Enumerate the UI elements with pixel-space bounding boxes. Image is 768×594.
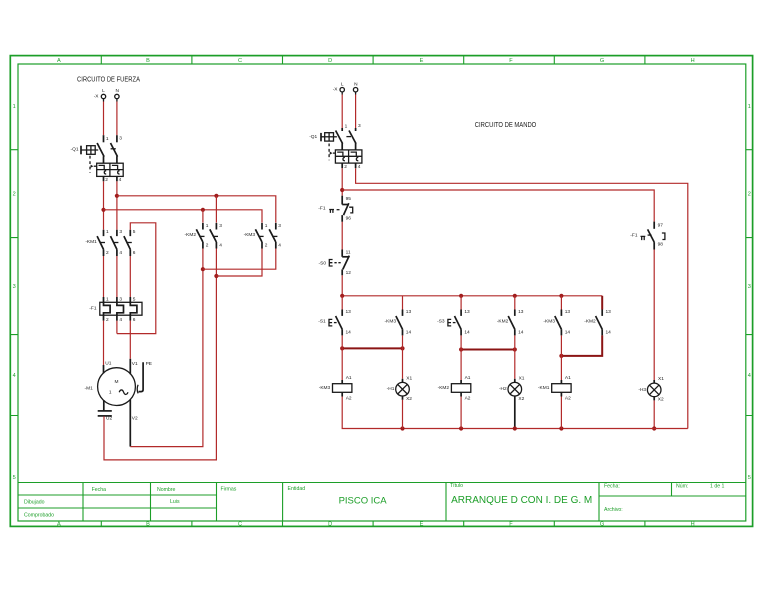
node dot L branch — [340, 188, 344, 192]
motor V2 lead — [129, 400, 131, 447]
svg-text:PISCO ICA: PISCO ICA — [339, 496, 388, 507]
svg-text:-KM3: -KM3 — [319, 385, 331, 391]
frame column ticks bottom — [101, 521, 645, 526]
svg-text:-KM2: -KM2 — [185, 232, 197, 238]
wire F1 pole2 to motor U1 — [103, 321, 105, 365]
svg-text:N: N — [354, 81, 358, 87]
frame column ticks top — [101, 56, 645, 64]
svg-text:X2: X2 — [518, 396, 524, 402]
svg-text:14: 14 — [606, 329, 612, 335]
svg-text:3: 3 — [119, 136, 122, 142]
thermal overload F1 (power) — [89, 296, 142, 322]
svg-text:13: 13 — [346, 309, 352, 315]
svg-text:2: 2 — [344, 164, 347, 170]
svg-text:-KM1: -KM1 — [538, 385, 550, 391]
svg-text:-KM3: -KM3 — [385, 318, 397, 324]
svg-text:Núm:: Núm: — [676, 484, 688, 490]
svg-text:CIRCUITO DE FUERZA: CIRCUITO DE FUERZA — [77, 76, 140, 83]
svg-text:3: 3 — [748, 284, 751, 290]
svg-text:M: M — [115, 379, 119, 385]
svg-text:D: D — [328, 58, 332, 64]
svg-text:14: 14 — [565, 329, 571, 335]
frame row numbers left and right — [13, 104, 751, 481]
svg-text:4: 4 — [219, 242, 222, 248]
wire L down to Q1 (control) — [341, 95, 343, 129]
svg-text:Nombre: Nombre — [157, 487, 176, 493]
svg-text:13: 13 — [565, 309, 571, 315]
svg-text:-KM2: -KM2 — [438, 385, 450, 391]
svg-text:5: 5 — [748, 475, 751, 481]
svg-text:1: 1 — [748, 104, 751, 110]
control bus lower — [342, 397, 688, 429]
svg-text:-KM2: -KM2 — [497, 318, 509, 324]
svg-text:Fecha: Fecha — [92, 487, 107, 493]
svg-text:X2: X2 — [406, 396, 412, 402]
svg-text:6: 6 — [133, 250, 136, 256]
wire S1 node down to coil KM3 — [341, 348, 343, 380]
svg-text:PE: PE — [146, 361, 152, 367]
svg-text:N: N — [115, 88, 119, 94]
svg-text:A: A — [57, 522, 61, 528]
svg-text:4: 4 — [358, 164, 361, 170]
svg-text:1 de 1: 1 de 1 — [710, 484, 725, 490]
svg-text:1: 1 — [106, 229, 109, 235]
svg-text:C: C — [238, 522, 242, 528]
wire F1 98 down to lamp H3 — [653, 250, 655, 383]
wire F1 pole4 lower stub — [116, 321, 118, 334]
svg-text:E: E — [420, 58, 424, 64]
wire L branch to KM2/KM3 pole 1 — [104, 210, 263, 223]
svg-text:13: 13 — [518, 309, 524, 315]
svg-text:C: C — [238, 58, 242, 64]
node dot H3 on lower bus — [652, 426, 656, 430]
thermal contact F1 97/98 — [630, 222, 665, 250]
svg-text:2: 2 — [206, 242, 209, 248]
svg-text:A1: A1 — [465, 375, 471, 381]
wire join KM3b/KM2b below (thick) — [561, 335, 602, 356]
svg-text:-X: -X — [333, 87, 339, 93]
lamp H2 — [499, 375, 525, 428]
svg-text:2: 2 — [265, 242, 268, 248]
wire join KM2/KM3 pole1 bottoms — [203, 249, 276, 270]
svg-text:-F1: -F1 — [630, 232, 638, 238]
thermal contact F1 95/96 — [318, 196, 352, 222]
contact KM2 aux b (NO) — [584, 309, 611, 335]
wire KM3b node down to coil KM1 — [560, 356, 562, 380]
svg-text:V1: V1 — [132, 361, 138, 367]
svg-text:G: G — [600, 522, 604, 528]
motor M1 — [85, 359, 152, 406]
pushbutton S3 (NO) — [437, 309, 470, 335]
svg-text:14: 14 — [346, 329, 352, 335]
svg-text:2: 2 — [105, 177, 108, 183]
svg-text:6: 6 — [133, 317, 136, 323]
svg-text:-M1: -M1 — [85, 385, 94, 391]
wire L branch to F1 97 column — [342, 190, 654, 222]
frame column letters bottom — [57, 522, 695, 528]
coil KM1 — [538, 375, 571, 401]
wire H1 down to lower bus — [402, 400, 404, 429]
node dot KM2 pole3 top — [214, 194, 218, 198]
title block labels — [24, 483, 725, 519]
svg-text:-KM2: -KM2 — [584, 318, 596, 324]
node dot KM2 pole3 bottom — [214, 274, 218, 278]
capacitor symbol at U2 — [98, 400, 113, 421]
svg-text:Comprobado: Comprobado — [24, 513, 54, 519]
wire F1 pole6 to motor V1 — [129, 321, 131, 359]
svg-text:F: F — [509, 58, 513, 64]
svg-text:ARRANQUE D CON I. DE G. M: ARRANQUE D CON I. DE G. M — [451, 495, 592, 506]
svg-text:95: 95 — [346, 196, 352, 202]
wire KM2 coil down to lower bus — [460, 397, 462, 429]
svg-text:-S3: -S3 — [437, 319, 445, 325]
svg-text:-S0: -S0 — [319, 260, 327, 266]
drawing frame inner border — [18, 64, 746, 521]
svg-text:5: 5 — [133, 229, 136, 235]
bus tap KM2b (thick) — [601, 296, 603, 310]
coil KM2 — [438, 375, 471, 401]
svg-text:A2: A2 — [565, 396, 571, 402]
svg-text:11: 11 — [346, 250, 351, 256]
svg-text:V2: V2 — [132, 416, 138, 422]
svg-text:X1: X1 — [406, 375, 412, 381]
svg-text:Luis: Luis — [170, 499, 180, 505]
PE pigtail — [139, 362, 144, 391]
svg-text:1: 1 — [265, 223, 268, 229]
svg-text:2: 2 — [748, 192, 751, 198]
wire S3 node down to coil KM2 — [460, 350, 462, 381]
svg-text:-H1: -H1 — [387, 386, 395, 392]
wire N across to right drop — [356, 168, 688, 428]
breaker Q1 (control) — [309, 123, 362, 170]
svg-text:A: A — [57, 58, 61, 64]
wire N down to Q1 (power) — [116, 102, 118, 136]
svg-text:Entidad: Entidad — [288, 486, 306, 492]
svg-text:B: B — [146, 522, 150, 528]
wire KM2 node down to lamp H2 — [514, 350, 516, 379]
svg-text:-Q1: -Q1 — [71, 146, 79, 152]
svg-text:5: 5 — [133, 296, 136, 302]
node dots on lower bus — [400, 426, 404, 430]
wire KM1 outputs to F1 — [104, 256, 131, 297]
svg-text:-KM3: -KM3 — [244, 232, 256, 238]
svg-text:3: 3 — [119, 229, 122, 235]
wire L below Q1 to F1 95 — [341, 168, 343, 196]
svg-text:13: 13 — [464, 309, 470, 315]
wire KM2 pole1 feed — [202, 210, 204, 223]
bus taps down to contacts — [342, 296, 561, 310]
wire L from Q1 to KM1 pole 1 — [103, 181, 105, 229]
wire L down to Q1 (power) — [103, 102, 105, 136]
wire N from Q1 to KM1 pole 3 — [116, 181, 118, 229]
svg-text:-H3: -H3 — [638, 387, 646, 393]
control bus upper — [342, 295, 602, 297]
svg-text:B: B — [146, 58, 150, 64]
svg-text:Fecha:: Fecha: — [604, 484, 620, 490]
contact KM3 aux (NO) — [385, 309, 412, 335]
terminal -X L (power) — [94, 88, 106, 102]
svg-text:2: 2 — [106, 317, 109, 323]
node dots on upper bus — [340, 294, 344, 298]
svg-text:1: 1 — [106, 296, 109, 302]
wire join S3/KM2 below — [461, 349, 515, 351]
node dot N feed — [115, 194, 119, 198]
terminal N (control) — [353, 81, 358, 94]
svg-text:A1: A1 — [346, 375, 352, 381]
node dot KM2 pole1 top — [201, 208, 205, 212]
svg-text:D: D — [328, 522, 332, 528]
svg-text:3: 3 — [119, 296, 122, 302]
svg-text:X1: X1 — [519, 375, 525, 381]
wire KM1 pole5 feed loop — [117, 223, 156, 334]
wire KM2 pole1 down and across to motor V2 — [130, 249, 203, 447]
svg-text:4: 4 — [13, 373, 16, 379]
svg-text:-Q1: -Q1 — [309, 134, 317, 140]
svg-text:96: 96 — [346, 216, 352, 222]
contact KM3 aux b (NO) — [543, 309, 570, 335]
svg-text:13: 13 — [406, 309, 412, 315]
svg-text:4: 4 — [119, 250, 122, 256]
title block grid — [18, 483, 746, 522]
svg-text:-F1: -F1 — [318, 206, 326, 212]
wire H3 down to lower bus — [653, 400, 655, 428]
contact KM2 aux (NO) — [497, 309, 524, 335]
svg-text:A1: A1 — [565, 375, 571, 381]
svg-text:-X: -X — [94, 93, 100, 99]
svg-text:3: 3 — [358, 123, 361, 129]
svg-text:1: 1 — [206, 223, 209, 229]
contactor KM3 (power) — [244, 223, 282, 249]
breaker Q1 (power) — [71, 135, 124, 183]
wire KM3 node down to lamp H1 — [402, 348, 404, 378]
frame column letters top — [57, 58, 695, 64]
wire N branch to KM2/KM3 pole 3 — [117, 196, 276, 223]
wire KM2 pole3 down and across to capacitor — [104, 249, 216, 460]
svg-text:98: 98 — [658, 242, 664, 248]
svg-text:-F1: -F1 — [89, 306, 97, 312]
svg-text:14: 14 — [464, 329, 470, 335]
svg-text:H: H — [691, 522, 695, 528]
svg-text:X1: X1 — [658, 376, 664, 382]
svg-text:1: 1 — [106, 136, 109, 142]
terminal -X L (control) — [333, 81, 345, 94]
svg-text:12: 12 — [346, 270, 352, 276]
svg-text:A2: A2 — [346, 396, 352, 402]
svg-text:3: 3 — [219, 223, 222, 229]
svg-text:-H2: -H2 — [499, 386, 507, 392]
wire join KM2/KM3 pole3 bottoms — [216, 249, 262, 277]
wire S0 to bus — [341, 275, 343, 296]
svg-text:13: 13 — [606, 309, 612, 315]
svg-text:5: 5 — [13, 475, 16, 481]
svg-text:3: 3 — [13, 284, 16, 290]
svg-text:U1: U1 — [105, 360, 111, 366]
svg-text:97: 97 — [658, 222, 664, 228]
svg-text:G: G — [600, 58, 604, 64]
pushbutton S1 (NO) — [318, 309, 351, 335]
svg-text:E: E — [420, 522, 424, 528]
svg-text:Título: Título — [450, 483, 463, 489]
svg-text:Firmas: Firmas — [221, 486, 237, 492]
svg-text:L: L — [341, 81, 344, 87]
lamp H1 — [387, 375, 413, 401]
wire N down to Q1 (control) — [355, 95, 357, 129]
svg-text:4: 4 — [119, 177, 122, 183]
svg-text:Archivo:: Archivo: — [604, 507, 623, 513]
node dot L feed — [101, 208, 105, 212]
wire KM2 pole3 feed — [215, 196, 217, 223]
coil KM3 — [319, 375, 352, 401]
svg-text:-KM3: -KM3 — [543, 318, 555, 324]
wire F1 96 to S0 — [341, 222, 343, 250]
svg-text:14: 14 — [406, 329, 412, 335]
pushbutton S0 (NC) — [319, 250, 352, 277]
svg-text:-S1: -S1 — [318, 319, 326, 325]
svg-text:4: 4 — [278, 242, 281, 248]
svg-text:1: 1 — [13, 104, 16, 110]
drawing frame outer border — [10, 56, 752, 527]
lamp H3 — [638, 376, 664, 402]
svg-text:X2: X2 — [658, 397, 664, 403]
svg-text:2: 2 — [13, 192, 16, 198]
frame row ticks left and right — [10, 150, 752, 416]
svg-text:CIRCUITO DE MANDO: CIRCUITO DE MANDO — [475, 122, 537, 129]
svg-text:14: 14 — [518, 329, 524, 335]
svg-text:F: F — [509, 522, 513, 528]
svg-text:4: 4 — [748, 373, 751, 379]
svg-text:L: L — [102, 88, 105, 94]
svg-text:U2: U2 — [106, 416, 112, 422]
svg-text:-KM1: -KM1 — [85, 239, 97, 245]
svg-text:3: 3 — [278, 223, 281, 229]
svg-text:H: H — [691, 58, 695, 64]
node dot KM2 pole1 bottom — [201, 267, 205, 271]
svg-text:A2: A2 — [465, 396, 471, 402]
contactor KM2 (power) — [185, 223, 223, 249]
svg-text:Dibujado: Dibujado — [24, 500, 45, 506]
svg-text:2: 2 — [106, 250, 109, 256]
terminal N (power) — [115, 88, 120, 102]
svg-text:1: 1 — [109, 390, 112, 396]
svg-text:4: 4 — [119, 317, 122, 323]
contactor KM1 main contacts — [85, 229, 135, 256]
svg-text:1: 1 — [345, 124, 348, 130]
wire join S1/KM3 below — [342, 347, 402, 349]
wire KM1 coil down to lower bus — [560, 397, 562, 429]
